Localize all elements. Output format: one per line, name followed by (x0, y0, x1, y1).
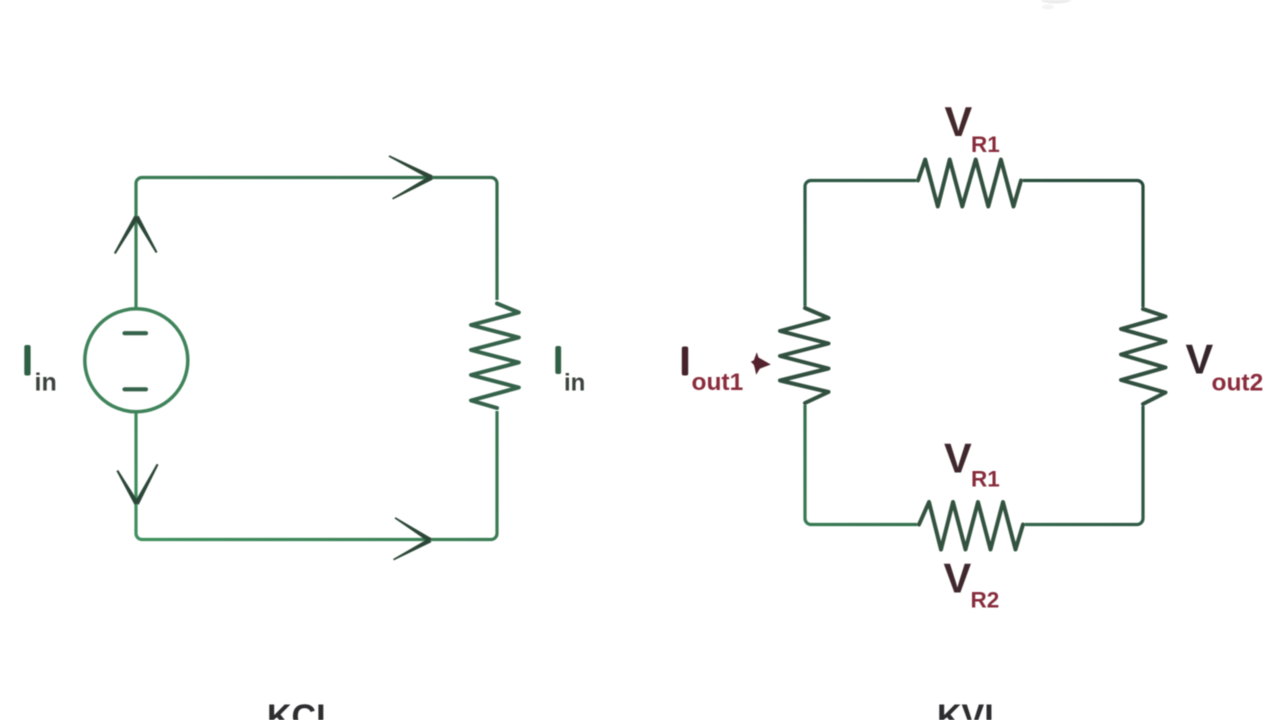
svg-text:KCL: KCL (267, 698, 337, 720)
label V_R1 (above top resistor) (945, 98, 1000, 157)
current-direction arrow on KCL bottom wire (393, 517, 431, 560)
svg-text:in: in (564, 370, 585, 397)
wire gap for KVL top resistor (916, 174, 1023, 187)
svg-text:R1: R1 (971, 132, 1000, 157)
svg-text:KVL: KVL (937, 698, 1005, 720)
current-direction arrow up on KCL left wire (114, 216, 158, 254)
label I_in (right of KCL resistor) (555, 346, 585, 397)
label I_in (left of source) (24, 345, 56, 397)
svg-text:V: V (945, 98, 973, 145)
wire gap for KVL right resistor (1137, 307, 1149, 406)
svg-text:V: V (944, 435, 972, 482)
svg-text:out2: out2 (1212, 370, 1264, 397)
faint smudge top edge (1041, 0, 1071, 10)
small arrow after I_out1 (751, 352, 771, 375)
label V_out2 (right of KVL) (1186, 335, 1264, 396)
svg-text:R2: R2 (971, 588, 1000, 613)
label I_out1 (left of KVL) (682, 347, 743, 397)
label V_R2 (below bottom resistor) (944, 555, 1000, 613)
current-direction arrow down on KCL left wire (116, 464, 158, 505)
resistor (KVL left) (780, 308, 829, 403)
wire gap for KCL resistor (490, 300, 504, 411)
current source bars (125, 333, 147, 389)
svg-text:in: in (35, 369, 57, 397)
svg-text:V: V (944, 555, 972, 602)
current source I_in (85, 309, 188, 412)
svg-text:V: V (1186, 335, 1214, 382)
svg-text:out1: out1 (692, 369, 744, 396)
resistor: KCL load (471, 304, 519, 409)
wire: KCL loop (136, 178, 497, 540)
wire gap for KVL bottom resistor (917, 518, 1025, 531)
svg-text:R1: R1 (971, 467, 1000, 492)
current-direction arrow on KCL top wire (389, 155, 433, 199)
resistor (KVL right) (1121, 309, 1166, 404)
wire gap for KVL left resistor (799, 306, 811, 405)
resistor R2 (KVL bottom) (919, 502, 1023, 550)
resistor R1 (KVL top) (918, 160, 1021, 207)
label V_R1 (above bottom resistor) (944, 435, 1000, 492)
wire: KVL loop (805, 181, 1143, 525)
